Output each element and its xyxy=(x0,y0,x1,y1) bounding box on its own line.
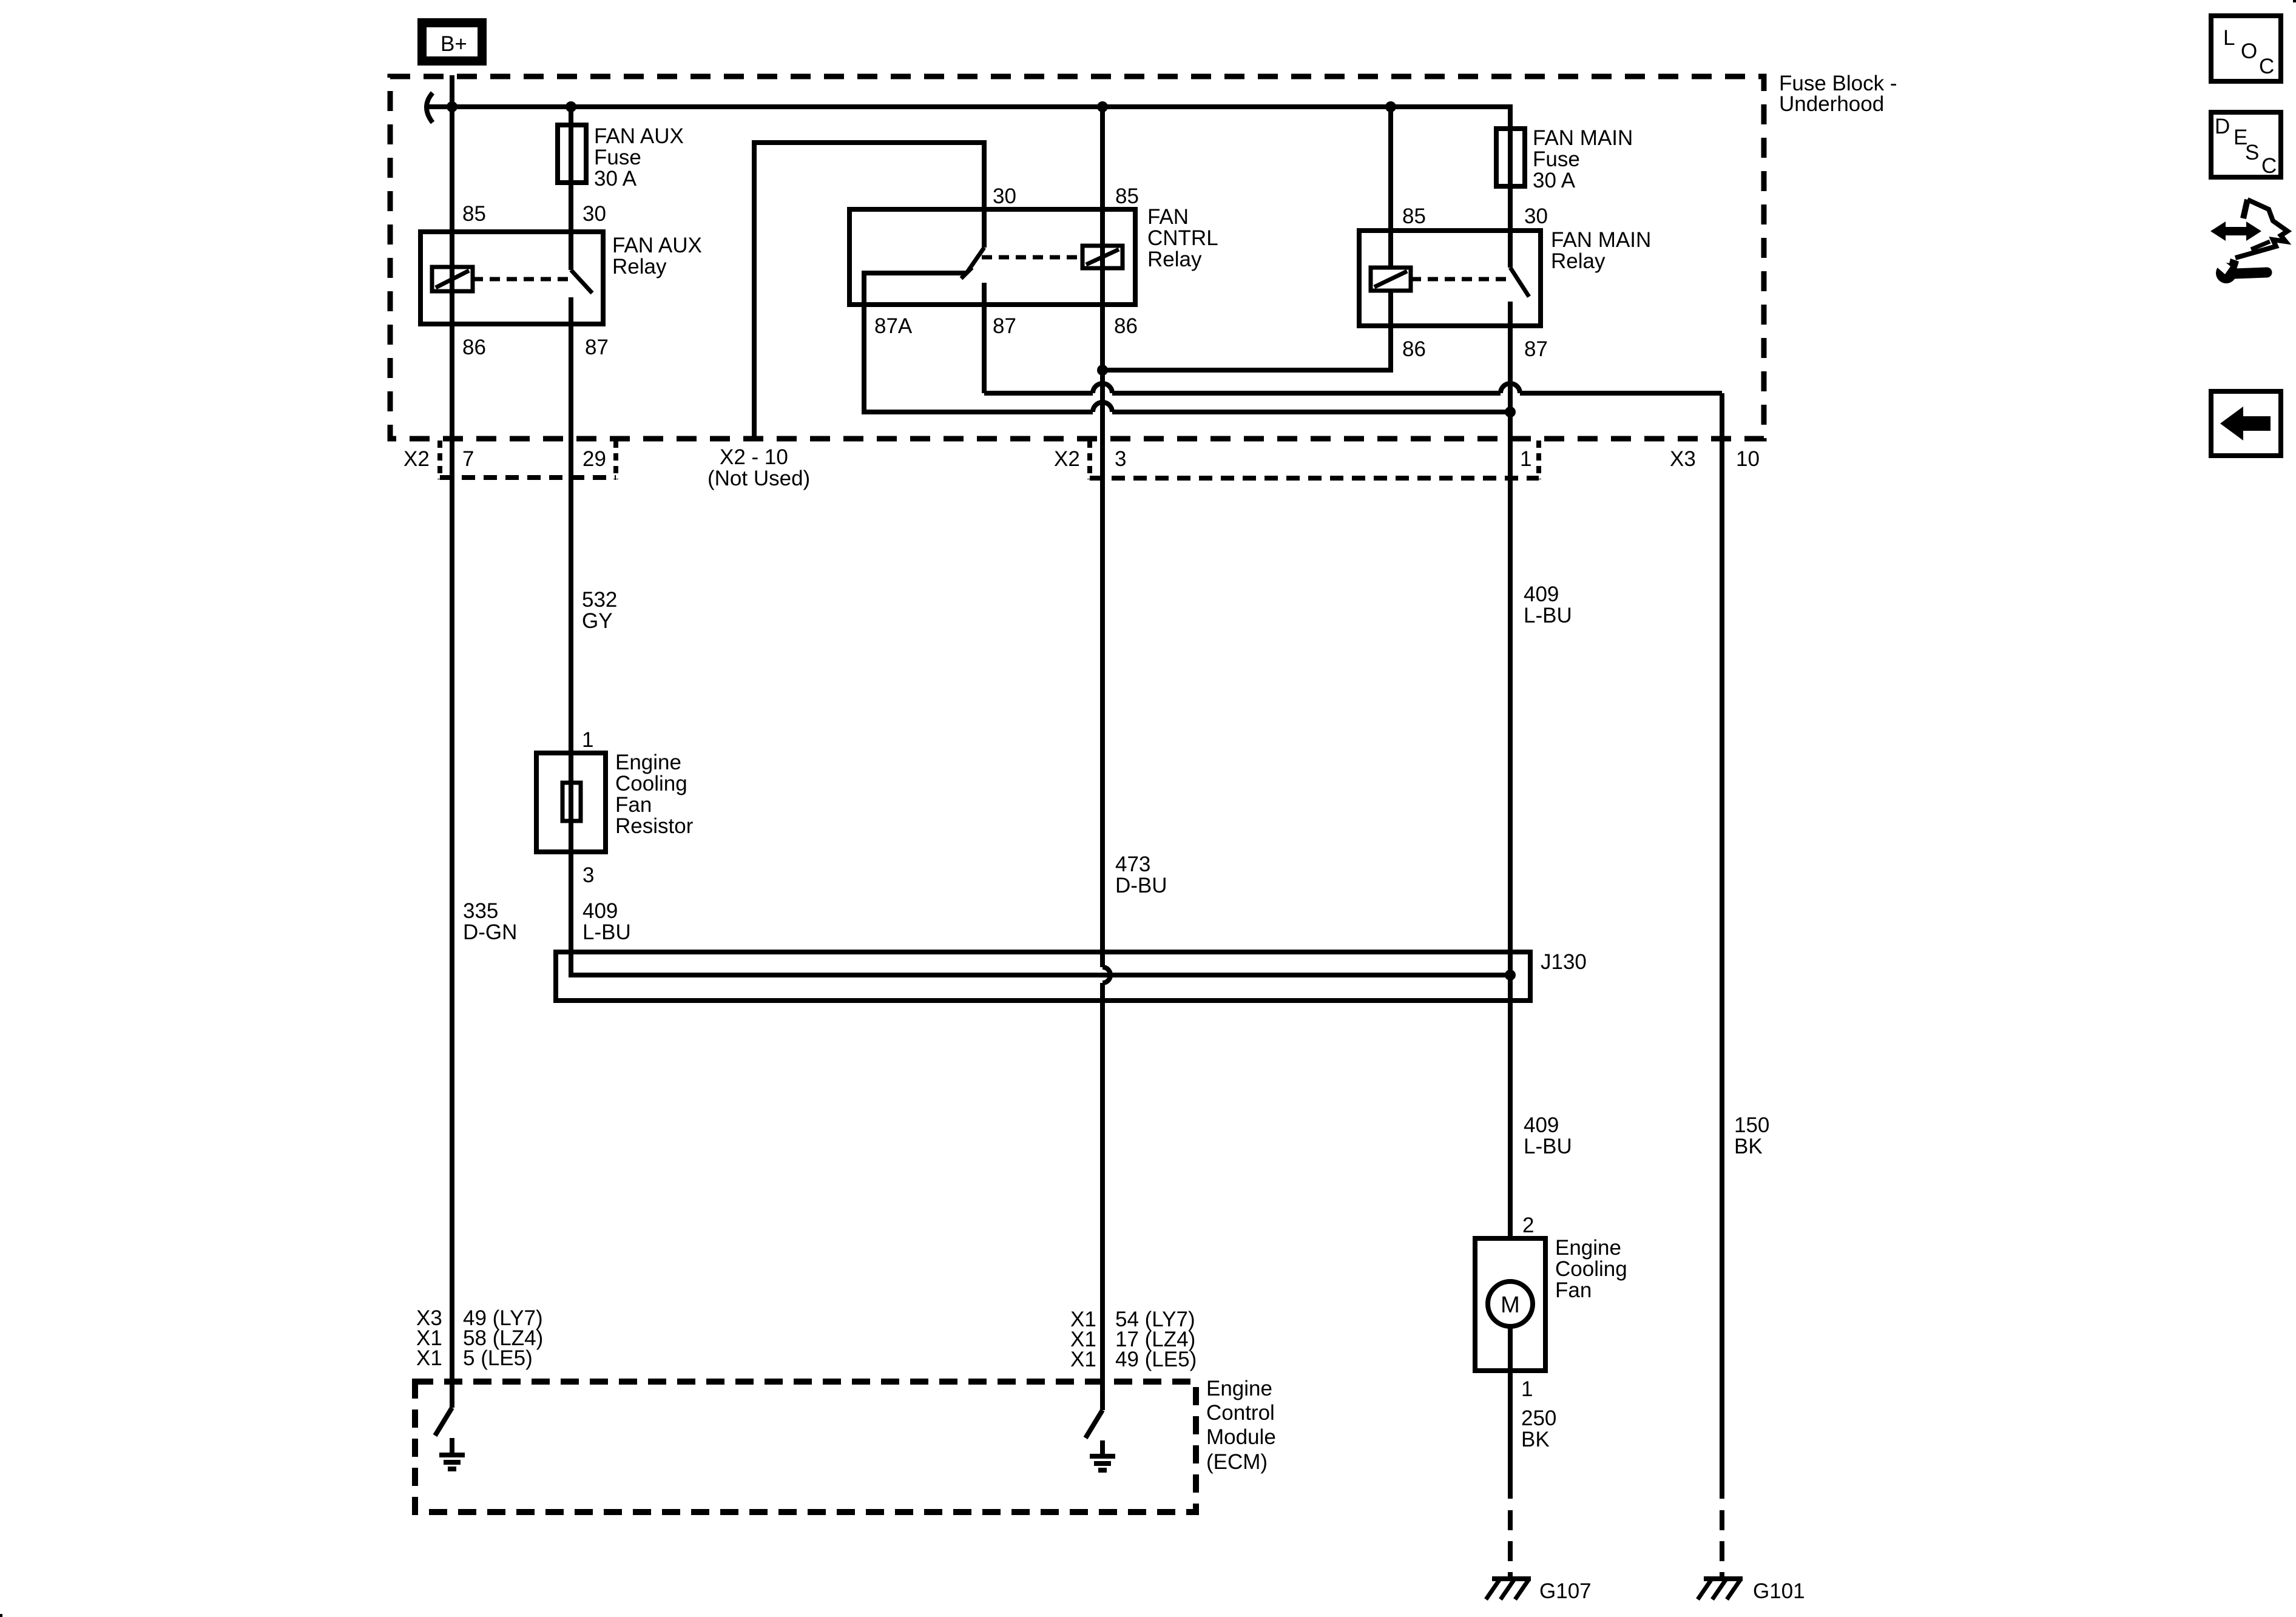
svg-text:49 (LE5): 49 (LE5) xyxy=(1115,1348,1197,1371)
svg-text:85: 85 xyxy=(462,202,486,226)
svg-text:85: 85 xyxy=(1402,204,1426,228)
svg-text:G107: G107 xyxy=(1539,1579,1592,1603)
svg-text:X2: X2 xyxy=(1054,447,1080,471)
svg-text:L-BU: L-BU xyxy=(1524,1135,1572,1158)
svg-text:85: 85 xyxy=(1115,184,1139,208)
svg-text:1: 1 xyxy=(1521,1377,1533,1401)
svg-text:O: O xyxy=(2241,39,2257,63)
svg-text:10: 10 xyxy=(1736,447,1760,471)
svg-text:1: 1 xyxy=(1520,447,1531,471)
svg-text:Engine: Engine xyxy=(1555,1236,1621,1260)
svg-text:Module: Module xyxy=(1206,1425,1276,1449)
svg-text:250: 250 xyxy=(1521,1406,1556,1430)
svg-text:FAN MAIN: FAN MAIN xyxy=(1551,228,1651,252)
svg-text:Engine: Engine xyxy=(1206,1377,1272,1400)
svg-text:BK: BK xyxy=(1734,1135,1763,1158)
svg-text:D: D xyxy=(2215,115,2230,138)
svg-text:GY: GY xyxy=(582,609,613,633)
svg-text:Relay: Relay xyxy=(612,255,667,279)
svg-text:2: 2 xyxy=(1522,1214,1534,1237)
svg-text:X1: X1 xyxy=(1070,1348,1096,1371)
svg-text:7: 7 xyxy=(462,447,474,471)
svg-text:150: 150 xyxy=(1734,1113,1769,1137)
svg-text:Relay: Relay xyxy=(1551,249,1606,273)
svg-text:30: 30 xyxy=(1524,204,1548,228)
svg-text:Relay: Relay xyxy=(1147,248,1202,271)
svg-text:86: 86 xyxy=(1402,337,1426,361)
svg-text:D-GN: D-GN xyxy=(463,920,517,944)
svg-text:CNTRL: CNTRL xyxy=(1147,226,1218,250)
svg-text:473: 473 xyxy=(1115,852,1150,876)
svg-text:G101: G101 xyxy=(1753,1579,1805,1603)
svg-text:Fuse: Fuse xyxy=(1533,147,1580,171)
svg-text:X3: X3 xyxy=(1670,447,1696,471)
svg-text:335: 335 xyxy=(463,899,498,923)
svg-text:D-BU: D-BU xyxy=(1115,874,1167,897)
svg-text:C: C xyxy=(2259,55,2274,78)
svg-text:30 A: 30 A xyxy=(594,167,637,191)
svg-text:Cooling: Cooling xyxy=(1555,1257,1627,1281)
svg-text:(Not Used): (Not Used) xyxy=(707,467,810,490)
svg-text:B+: B+ xyxy=(441,32,467,56)
svg-text:M: M xyxy=(1501,1292,1520,1318)
svg-text:Control: Control xyxy=(1206,1401,1275,1425)
svg-text:S: S xyxy=(2245,141,2259,164)
svg-text:L-BU: L-BU xyxy=(1524,604,1572,627)
svg-text:Engine: Engine xyxy=(615,751,681,774)
svg-text:1: 1 xyxy=(582,728,593,752)
svg-text:409: 409 xyxy=(582,899,618,923)
svg-text:30: 30 xyxy=(993,184,1016,208)
svg-text:Fan: Fan xyxy=(1555,1278,1592,1302)
svg-text:5 (LE5): 5 (LE5) xyxy=(463,1346,533,1370)
svg-text:FAN MAIN: FAN MAIN xyxy=(1533,126,1633,150)
svg-text:86: 86 xyxy=(462,336,486,359)
svg-text:409: 409 xyxy=(1524,1113,1559,1137)
svg-text:29: 29 xyxy=(582,447,606,471)
svg-text:(ECM): (ECM) xyxy=(1206,1450,1268,1474)
svg-text:Fan: Fan xyxy=(615,793,652,817)
svg-text:L-BU: L-BU xyxy=(582,920,631,944)
svg-text:FAN: FAN xyxy=(1147,205,1189,229)
svg-text:X2: X2 xyxy=(403,447,430,471)
svg-text:X2 - 10: X2 - 10 xyxy=(720,445,788,469)
svg-text:Underhood: Underhood xyxy=(1779,92,1884,116)
svg-text:Resistor: Resistor xyxy=(615,814,694,838)
svg-text:Fuse: Fuse xyxy=(594,146,641,169)
svg-text:87: 87 xyxy=(1524,337,1548,361)
svg-text:J130: J130 xyxy=(1541,950,1587,974)
svg-text:86: 86 xyxy=(1114,314,1138,338)
svg-text:3: 3 xyxy=(1115,447,1126,471)
svg-text:FAN AUX: FAN AUX xyxy=(594,124,684,148)
svg-text:409: 409 xyxy=(1524,582,1559,606)
svg-text:87: 87 xyxy=(585,336,609,359)
svg-text:BK: BK xyxy=(1521,1428,1550,1451)
svg-text:Cooling: Cooling xyxy=(615,772,687,795)
svg-text:30 A: 30 A xyxy=(1533,169,1576,192)
svg-text:3: 3 xyxy=(582,863,594,887)
svg-text:L: L xyxy=(2223,26,2235,50)
svg-text:87: 87 xyxy=(993,314,1016,338)
svg-text:FAN AUX: FAN AUX xyxy=(612,234,702,257)
svg-text:X1: X1 xyxy=(416,1346,442,1370)
svg-text:87A: 87A xyxy=(874,314,913,338)
svg-text:30: 30 xyxy=(582,202,606,226)
svg-text:C: C xyxy=(2261,154,2277,178)
svg-text:532: 532 xyxy=(582,588,617,612)
